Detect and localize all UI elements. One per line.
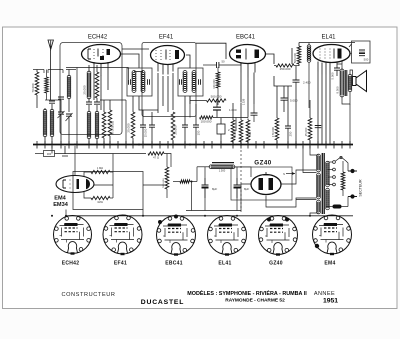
resistor R10 [239,120,243,142]
svg-text:500: 500 [364,58,369,62]
wire bus right to transformer [302,146,304,173]
junction dots [74,144,76,146]
EM34 box [73,172,143,210]
svg-text:EF41: EF41 [114,261,127,267]
resistor R1b [45,77,49,93]
resistor R11 5 M [246,120,250,142]
resistor R22 screen feed [180,180,190,183]
wire choke left [197,166,210,168]
capacitor C1 [49,101,55,103]
wire top feed EL41 [299,42,355,44]
svg-text:8μF: 8μF [212,187,217,191]
electrolytic capacitor C18 8uF [234,178,241,198]
wire antenna lead [50,50,52,101]
svg-text:250: 250 [289,131,293,136]
wires filter caps [204,167,206,178]
wire AF line [213,117,248,119]
IF transformer T2 box [178,68,203,96]
wire GZ40 right [282,170,317,184]
IF transformer T2 trim capacitor right [199,79,201,85]
resistor R20 transformer right [341,172,345,190]
tube EL41 [313,45,350,75]
resistor R7 500.000 [207,99,227,102]
socket GZ40 filled pins top [267,218,271,222]
wires EM34 internal [94,184,113,186]
svg-text:1.326: 1.326 [242,98,246,105]
wire grid resistor EL41 top [291,48,293,64]
wire left under bus [35,153,44,155]
bus connection ticks [37,141,350,149]
wire drop x52 to line [51,154,53,216]
svg-text:300: 300 [47,152,52,156]
capacitor C16 500 [359,50,365,52]
wire IFT1 to EF41 grid [139,96,158,110]
wire transformer top [337,64,342,70]
oscillator coil L4 25.000 [87,71,91,99]
oscillator coil L5 [87,111,91,139]
svg-text:250.000: 250.000 [280,67,291,71]
resistor R8 100.000 [200,116,214,119]
tube EBC41 [230,45,266,78]
resistor R9 50.000 [231,120,235,142]
socket EL41 [208,216,247,256]
wire EF41 plate to IFT2 [186,55,190,68]
capacitor C10 coupling to EBC41 grid [217,62,219,68]
svg-text:1MΩ: 1MΩ [97,200,103,204]
svg-text:100.000: 100.000 [212,79,216,89]
output transformer primary coil [340,69,344,97]
socket EM4 [313,215,352,255]
svg-text:EM4: EM4 [54,196,66,202]
wire EM34 top [74,146,76,176]
svg-text:EBC41: EBC41 [165,261,183,267]
wire x77 down [76,68,78,145]
wires osc cluster [88,65,90,72]
socket EBC41 filled pin top [158,220,162,224]
svg-text:GZ40: GZ40 [269,261,283,267]
ground bus [33,144,353,146]
IF transformer T1 trim capacitor right [148,79,150,85]
svg-text:1oo.ooo: 1oo.ooo [161,178,165,188]
tube EM34 magic eye [56,176,94,193]
wire EF41 box to EBC41 [196,43,226,59]
resistor R4 50.000 [108,110,112,136]
oscillator coil L6 [95,111,99,139]
resistor R6 25.000 [171,112,175,140]
power transformer primary winding [317,154,321,172]
svg-text:50.000(1/2): 50.000(1/2) [111,121,115,135]
IF transformer T1 primary coil [132,71,136,93]
speaker [353,77,357,86]
power transformer core [322,153,324,214]
resistor R21 100.000 grid leak [216,72,220,88]
antenna [48,40,53,50]
wire down from bus x52 [51,146,53,154]
svg-text:EM34: EM34 [53,202,69,208]
capacitor C3 [86,102,92,104]
wire plate load [274,65,276,67]
svg-text:5x1: 5x1 [248,131,252,136]
svg-text:RAYMONDE - CHARME 52: RAYMONDE - CHARME 52 [225,298,285,304]
capacitor C9 1.000 [213,107,221,110]
tube EF41 [151,46,185,75]
capacitor C8 150 [193,125,199,127]
trimmer capacitor CV2 [66,114,72,116]
IF transformer T2 primary coil [183,71,187,93]
ground stub below bus [62,146,68,156]
dashed mechanical link [240,150,242,212]
svg-text:CONSTRUCTEUR: CONSTRUCTEUR [61,292,115,298]
wire detector left [189,96,191,118]
resistor R2 [95,72,99,98]
svg-text:500.000: 500.000 [293,53,297,64]
capacitor C7 [182,125,188,127]
wire EM34 box to B+ line [65,210,67,216]
wire GZ40 left [241,184,251,211]
electrolytic capacitor C17 8uF [202,178,209,198]
capacitor C6 [149,125,155,127]
svg-text:2.400: 2.400 [303,81,311,85]
input coil L1 [43,109,47,137]
IF transformer T2 secondary coil [192,71,196,93]
shield box EF41 section [142,43,196,117]
resistor R5 25.000 [131,112,135,138]
wire ECH42 to EF41 link [122,48,149,50]
IF transformer T1 trim capacitor left [129,79,131,85]
wire long horizontal B+ line [66,215,353,217]
mains plug pins [350,169,354,173]
wires transformer left taps [310,146,319,155]
wire EL41 to box [350,53,352,55]
box 300 left [44,151,55,157]
tube GZ40 rectifier [251,172,281,195]
switch S arrow [286,173,295,175]
capacitor C12 250 [285,126,291,128]
resistor R12 170.000 [275,118,279,140]
box GZ40 section [231,167,292,200]
resistor R3 [102,112,106,138]
svg-text:SECTEUR: SECTEUR [359,179,363,197]
wire R16 right [164,154,171,168]
wire EBC41 to EL41 grid path [274,76,292,86]
svg-text:70.000: 70.000 [31,83,35,93]
wire transformer bottom [342,91,350,104]
tube ECH42 [82,45,121,76]
socket EF41 [103,215,142,255]
svg-text:EBC41: EBC41 [236,35,256,41]
electrolytic capacitor C11 [217,124,225,134]
svg-text:EL41: EL41 [218,261,231,267]
wires ECH42 pins down [94,70,108,110]
resistor R15 25.000 [308,118,312,140]
socket EM4 filled pin [315,244,319,248]
capacitor C15b cathode bypass [315,126,322,128]
svg-text:5.000: 5.000 [290,99,298,103]
svg-text:47 Ω: 47 Ω [153,156,159,160]
resistor R16 4.7 [148,152,164,155]
wire top connectors left [33,69,44,71]
transformer taps terminals [328,161,333,163]
resistor R18 1M top [91,170,110,173]
resistor R19 1M bottom [91,196,110,199]
svg-text:150: 150 [197,130,201,135]
svg-text:EM4: EM4 [324,261,335,267]
svg-text:9.500: 9.500 [336,86,340,93]
wire EBC41 pins down [241,73,254,118]
wire AVC under ECH42 [66,67,129,69]
svg-text:MODÈLES : SYMPHONIE - RIVIÉRA: MODÈLES : SYMPHONIE - RIVIÉRA - RUMBA II [187,289,307,297]
wire EM34 vertical junction [112,154,114,199]
wire filter to GZ40 [234,167,251,177]
wire ECH42 plate to IFT1 [121,54,140,68]
wires T1 internal [134,71,143,73]
svg-text:1951: 1951 [323,298,338,305]
svg-text:25.000: 25.000 [304,127,308,136]
svg-text:15.000: 15.000 [144,128,148,137]
svg-text:100.000: 100.000 [201,120,212,124]
shield box oscillator section [60,43,122,135]
capacitor C14 5.000 [281,98,288,100]
wire drops detector [235,118,237,132]
input coil L2 [50,109,54,137]
capacitor C13 2.400 [293,80,300,82]
svg-text:25.000: 25.000 [83,85,87,95]
socket GZ40 [259,216,298,256]
svg-text:8μF: 8μF [244,187,249,191]
wires EF41 pins down [158,73,173,113]
svg-text:GZ40: GZ40 [254,160,272,167]
svg-text:5.000: 5.000 [331,72,335,79]
svg-text:ANNEE: ANNEE [314,291,335,297]
svg-text:25.000: 25.000 [127,123,131,133]
coil L3 150 [67,75,71,99]
svg-text:DUCASTEL: DUCASTEL [141,299,184,306]
wire EBC41 plate right [266,54,275,64]
resistor R13 250.000 plate [276,64,294,67]
box EL41 right 500 [352,41,371,63]
svg-text:170.000: 170.000 [271,127,275,138]
resistor R14 500.000 vertical [297,46,301,64]
fuse [333,205,342,209]
tuning gang wire [45,99,61,101]
wire coupling cap [203,64,217,66]
filter choke [209,165,235,169]
wire right frame down [352,144,354,146]
wires EL41 pins down [318,72,330,145]
svg-text:1.500: 1.500 [219,169,226,173]
IF transformer T2 trim capacitor left [180,79,182,85]
capacitor C4 [94,102,100,104]
svg-text:500.000: 500.000 [211,95,222,99]
switch interrupteur [336,157,347,161]
wire GZ40 bottom [266,196,316,208]
svg-text:50.000: 50.000 [233,129,237,138]
capacitor C5 15.000 [140,125,146,127]
power transformer secondary winding [326,161,330,187]
socket ECH42 [54,216,92,255]
wire L1 top [44,108,46,110]
svg-text:25.000: 25.000 [174,125,178,135]
wire IFT2 to detector [189,96,191,104]
svg-text:EL41: EL41 [321,35,336,41]
svg-text:ECH42: ECH42 [62,261,80,267]
output transformer secondary coil [348,74,352,92]
capacitor C15 5.000 [334,68,340,70]
svg-text:1 MΩ: 1 MΩ [97,166,103,170]
wire R1 [36,70,38,73]
capacitor C2 [58,97,64,99]
svg-text:50: 50 [222,60,226,64]
output transformer core [345,70,347,96]
IF transformer T1 secondary coil [141,71,145,93]
IF transformer T1 box [127,68,152,96]
capacitor C9b [251,113,258,115]
choke L7 [307,45,311,63]
socket EBC41 [157,216,196,256]
svg-text:ECH42: ECH42 [88,35,108,41]
wire osc horizontal [100,99,126,101]
svg-text:EF41: EF41 [159,35,174,41]
resistor R1 70.000 antenna [35,72,39,95]
wire plugs [346,161,348,171]
resistor R17 100.000 vertical [165,167,169,189]
trimmer capacitor CV1 [58,112,64,114]
